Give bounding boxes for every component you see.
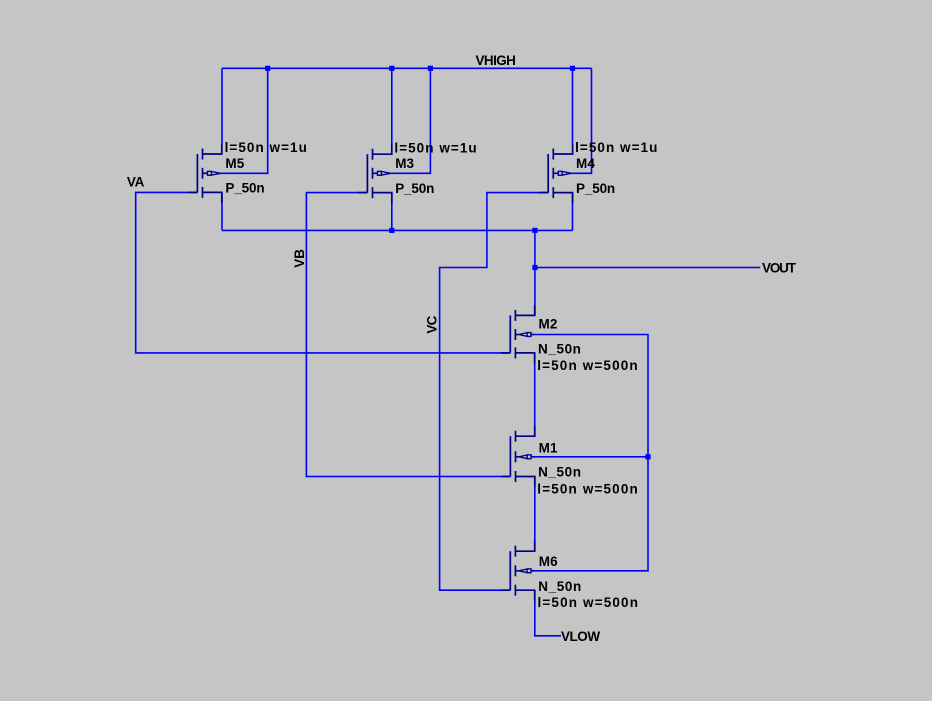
- junction bulk bus / M1 bulk: [645, 454, 650, 459]
- svg-text:l=50n w=1u: l=50n w=1u: [225, 140, 308, 155]
- wire node VB net: [306, 193, 510, 477]
- wire M5 drain riser: [221, 68, 223, 145]
- svg-text:P_50n: P_50n: [576, 181, 615, 196]
- junction VOUT node: [532, 265, 537, 270]
- wire M5 bulk to VHIGH: [221, 68, 268, 173]
- wire VOUT: [535, 267, 760, 269]
- wire M4 bulk to VHIGH: [571, 68, 591, 173]
- wire M2 source to M1 drain: [534, 353, 536, 436]
- svg-text:P_50n: P_50n: [225, 181, 264, 196]
- wire node VA net: [136, 192, 511, 353]
- svg-text:M2: M2: [539, 317, 558, 332]
- wire M5 source drop: [221, 193, 223, 230]
- transistor M2 (NMOS N_50n): [501, 305, 535, 364]
- wire VOUT node to M2 drain: [534, 268, 536, 316]
- wire M1 source to M6 drain: [534, 477, 536, 552]
- svg-text:VB: VB: [292, 249, 307, 268]
- wire node VC net: [440, 193, 549, 591]
- wire source rail to VOUT node: [534, 230, 536, 267]
- wire M3 bulk to VHIGH: [391, 68, 431, 173]
- junction VHIGH / M3 drain: [389, 66, 394, 71]
- svg-text:l=50n w=500n: l=50n w=500n: [537, 358, 639, 373]
- wire M6 source to VLOW: [535, 591, 561, 636]
- svg-text:l=50n w=1u: l=50n w=1u: [394, 140, 477, 155]
- junction VHIGH / M4 drain: [570, 66, 575, 71]
- svg-text:M5: M5: [225, 156, 244, 171]
- svg-text:VC: VC: [424, 315, 439, 333]
- wire M3 source drop: [391, 193, 393, 230]
- wire VHIGH rail: [222, 67, 592, 69]
- wire M4 source drop: [572, 193, 574, 230]
- junction VHIGH / M3 bulk: [428, 66, 433, 71]
- wire PMOS source rail: [222, 229, 573, 231]
- svg-text:VHIGH: VHIGH: [476, 53, 516, 68]
- svg-text:M1: M1: [539, 440, 558, 455]
- svg-text:l=50n w=500n: l=50n w=500n: [537, 481, 639, 496]
- transistor M4 (PMOS P_50n): [539, 144, 573, 204]
- svg-text:M6: M6: [539, 554, 558, 569]
- wire M1 bulk to bus: [534, 456, 648, 458]
- svg-text:VOUT: VOUT: [762, 261, 797, 276]
- junction source rail / VOUT drop: [532, 228, 537, 233]
- junction source rail / M3 source: [389, 228, 394, 233]
- transistor M1 (NMOS N_50n): [501, 426, 535, 487]
- svg-text:P_50n: P_50n: [395, 181, 434, 196]
- wire NMOS bulk bus: [534, 335, 648, 571]
- svg-text:M3: M3: [395, 156, 414, 171]
- svg-text:VA: VA: [127, 175, 145, 190]
- wire M4 drain riser: [572, 68, 574, 145]
- transistor M5 (PMOS P_50n): [188, 144, 222, 203]
- svg-text:N_50n: N_50n: [538, 465, 582, 480]
- wire M3 drain riser: [391, 68, 393, 145]
- svg-text:N_50n: N_50n: [538, 579, 582, 594]
- svg-text:VLOW: VLOW: [561, 629, 600, 644]
- svg-text:N_50n: N_50n: [538, 341, 582, 356]
- transistor M3 (PMOS P_50n): [358, 144, 392, 203]
- svg-text:l=50n w=1u: l=50n w=1u: [575, 140, 658, 155]
- junction VHIGH / M5 bulk: [265, 66, 270, 71]
- svg-text:l=50n w=500n: l=50n w=500n: [538, 595, 640, 610]
- transistor M6 (NMOS N_50n): [501, 541, 535, 601]
- svg-text:M4: M4: [576, 156, 595, 171]
